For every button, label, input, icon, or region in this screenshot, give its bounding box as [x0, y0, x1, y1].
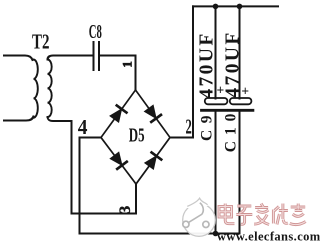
svg-text:C8: C8: [89, 21, 102, 43]
svg-text:T2: T2: [32, 30, 50, 54]
wire capacitor C10 bottom: [239, 111, 241, 234]
capacitor C9 curved plate box: [205, 98, 228, 104]
svg-text:3: 3: [115, 206, 134, 214]
diode D5 top-right (points to node 2): [143, 104, 162, 123]
transformer T2 primary bottom lead: [4, 117, 34, 121]
svg-text:C9: C9: [199, 109, 216, 141]
diode D5 bottom-left (points to node 3): [109, 151, 128, 170]
wire bridge edge 3-4: [101, 138, 136, 185]
transformer T2 secondary top lead: [48, 56, 93, 60]
watermark hanzi white core: [219, 204, 306, 225]
wire bridge edge 1-2: [136, 90, 171, 138]
diode D5 top-left (points to node 1): [108, 105, 127, 124]
wire bridge edge 4-1: [101, 90, 136, 138]
wire capacitor C10 top: [239, 6, 241, 98]
diode D5 bottom-right (points to node 2): [143, 152, 162, 171]
wire top rail: [193, 5, 278, 7]
watermark logo drop: [183, 198, 216, 236]
wire transformer bottom to mid rail: [72, 121, 137, 214]
transformer T2 primary top lead: [4, 56, 33, 61]
wire C8 to bridge node 1: [99, 56, 136, 91]
wire capacitor C9 bottom: [215, 111, 217, 234]
capacitor C8 left plate: [93, 42, 95, 70]
svg-text:1: 1: [120, 61, 135, 68]
capacitor C10 curved plate box: [230, 98, 252, 104]
junction dot at C10 top rail: [237, 4, 243, 10]
wire node 3 drop: [135, 184, 137, 214]
transformer T2 primary winding: [34, 60, 38, 118]
capacitor C10 straight plate: [228, 109, 253, 112]
svg-text:2: 2: [186, 114, 192, 138]
capacitor C9 straight plate: [202, 109, 226, 112]
wire bridge edge 2-3: [136, 138, 170, 185]
capacitor C8 right plate: [98, 42, 100, 70]
wire node 2 to top rail: [170, 6, 193, 137]
transformer T2 secondary bottom lead: [48, 117, 72, 121]
junction dot at C9 top rail: [213, 4, 219, 10]
svg-text:4: 4: [78, 115, 88, 139]
svg-text:470UF: 470UF: [197, 31, 218, 98]
junction dot at C9 bottom rail: [213, 231, 219, 237]
svg-text:+: +: [241, 83, 249, 98]
wire capacitor C9 top: [215, 6, 217, 98]
svg-text:D5: D5: [129, 125, 145, 147]
svg-text:www.elecfans.com: www.elecfans.com: [217, 230, 321, 244]
wire node 4 to bottom rail: [80, 138, 102, 234]
transformer T2 secondary winding: [48, 60, 52, 118]
wire bottom rail: [80, 233, 240, 235]
watermark hanzi 电子发烧友 (drawn strokes): [219, 204, 306, 225]
svg-text:C10: C10: [223, 108, 240, 153]
